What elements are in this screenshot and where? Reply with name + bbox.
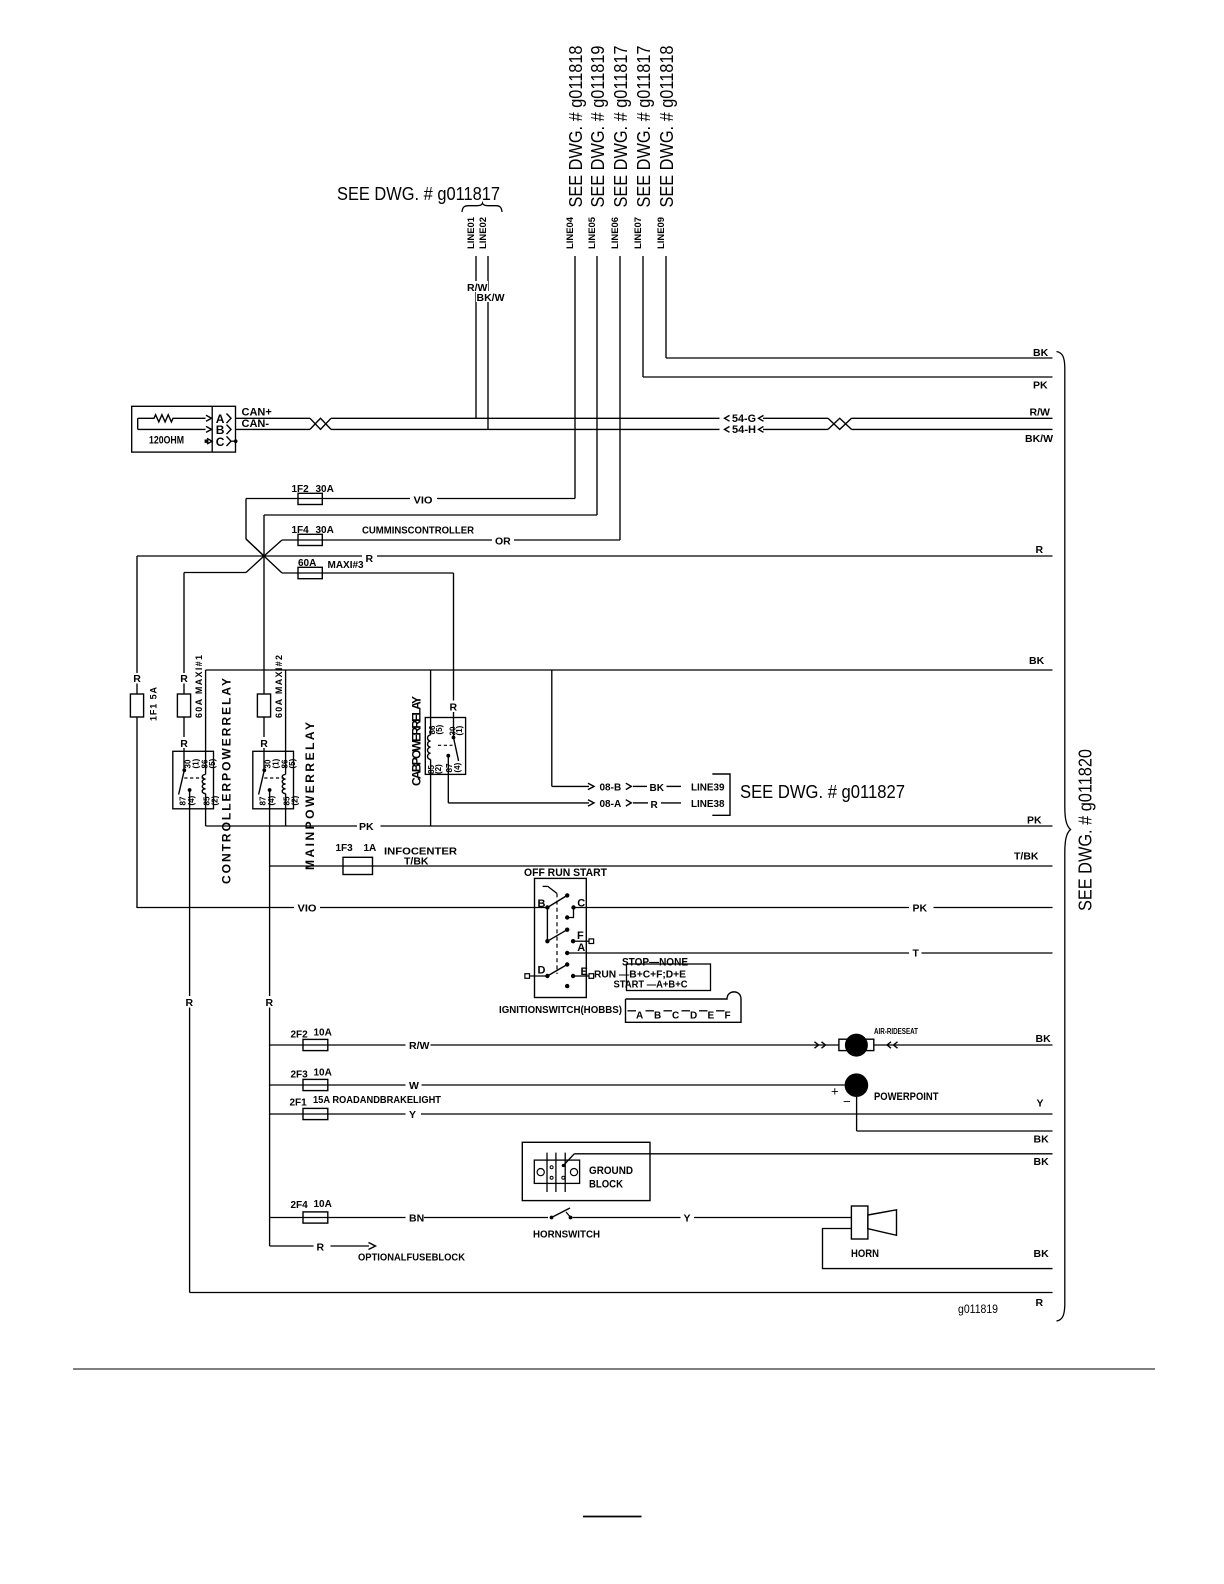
relay CABPOWERRELAY — [425, 718, 465, 775]
svg-text:(1): (1) — [455, 725, 464, 735]
svg-text:BK: BK — [1029, 655, 1045, 667]
resistor 120OHM terminator block — [132, 406, 236, 452]
svg-text:W: W — [409, 1080, 419, 1092]
bracket — [712, 774, 730, 815]
svg-text:R: R — [266, 997, 274, 1009]
svg-text:BK/W: BK/W — [1025, 433, 1053, 445]
svg-text:BLOCK: BLOCK — [589, 1179, 623, 1191]
svg-text:LINE01: LINE01 — [466, 217, 476, 249]
wire 08-A — [448, 802, 589, 804]
wire star vertical — [263, 515, 265, 694]
svg-text:(5): (5) — [288, 758, 297, 768]
footer center mark — [583, 1516, 642, 1518]
wire CAN+ — [236, 417, 311, 419]
pin B — [646, 1010, 655, 1012]
svg-text:Y: Y — [409, 1109, 416, 1121]
svg-text:LINE09: LINE09 — [656, 217, 666, 249]
svg-text:R/W: R/W — [1030, 407, 1051, 419]
terminal B — [206, 426, 212, 432]
svg-text:10A: 10A — [314, 1028, 332, 1039]
svg-text:GROUND: GROUND — [589, 1165, 633, 1177]
relay MAINPOWERRELAY — [253, 751, 294, 809]
wire powerpoint minus — [856, 1097, 858, 1131]
svg-text:BK: BK — [1034, 1134, 1050, 1146]
wire LINE06 drop — [619, 256, 621, 540]
svg-text:MAXI#3: MAXI#3 — [328, 560, 365, 571]
fuse 1F4 30A — [298, 534, 322, 545]
pin C — [664, 1010, 673, 1012]
wire to MAXI#1 column — [184, 572, 246, 574]
wire LINE04 drop — [574, 256, 576, 499]
fuse 60A MAXI#2 — [263, 717, 265, 737]
svg-text:B: B — [654, 1011, 661, 1022]
svg-text:SEE DWG. # g011819: SEE DWG. # g011819 — [588, 46, 608, 208]
svg-text:PK: PK — [359, 821, 374, 833]
svg-text:SEE DWG. # g011817: SEE DWG. # g011817 — [634, 46, 654, 208]
svg-text:CUMMINSCONTROLLER: CUMMINSCONTROLLER — [362, 525, 474, 537]
wire 1F1 column — [136, 556, 138, 673]
wire relay1 87 long drop — [189, 809, 191, 996]
svg-text:(4): (4) — [187, 795, 196, 805]
svg-text:LINE06: LINE06 — [610, 217, 620, 249]
svg-text:+: + — [831, 1084, 839, 1099]
twisted pair crossover 2 — [828, 418, 852, 429]
svg-text:F: F — [725, 1011, 731, 1022]
svg-text:R: R — [1036, 544, 1044, 556]
svg-text:PK: PK — [1033, 380, 1048, 392]
fuse 2F2 10A — [270, 1044, 406, 1046]
resistor element — [138, 415, 206, 422]
terminal B — [545, 905, 549, 909]
svg-text:−: − — [843, 1094, 851, 1109]
svg-text:C: C — [216, 435, 225, 449]
fuse 2F4 10A — [270, 1217, 406, 1219]
terminal D — [525, 974, 530, 979]
svg-text:OFF RUN START: OFF RUN START — [524, 867, 607, 879]
svg-text:R: R — [651, 800, 659, 811]
svg-text:LINE04: LINE04 — [565, 217, 575, 249]
brace over LINE01/LINE02 — [462, 203, 502, 212]
svg-text:(4): (4) — [267, 795, 276, 805]
svg-text:CAN-: CAN- — [242, 418, 270, 430]
svg-text:BK/W: BK/W — [477, 292, 505, 304]
svg-text:1A: 1A — [364, 843, 377, 854]
svg-text:LINE07: LINE07 — [633, 217, 643, 249]
wire VIO — [137, 907, 294, 909]
horn switch — [550, 1216, 554, 1220]
svg-text:2F1: 2F1 — [290, 1098, 308, 1109]
terminal C — [571, 905, 575, 909]
svg-text:SEE DWG. # g011827: SEE DWG. # g011827 — [740, 782, 905, 802]
blade3 — [547, 965, 567, 977]
svg-text:F: F — [577, 930, 584, 942]
svg-text:SEE DWG. # g011818: SEE DWG. # g011818 — [566, 46, 586, 208]
wire BK coil bus — [206, 669, 1053, 671]
svg-text:R: R — [133, 673, 141, 685]
wire T/BK — [270, 865, 1053, 867]
wire resistor loop to B — [137, 418, 139, 429]
svg-text:B: B — [538, 898, 546, 910]
wire LINE05 drop — [596, 256, 598, 515]
terminal F — [571, 939, 575, 943]
wire PK from C — [574, 907, 910, 909]
footer separator rule — [73, 1368, 1155, 1370]
svg-text:E: E — [581, 966, 588, 978]
svg-text:PK: PK — [1027, 815, 1042, 827]
svg-text:VIO: VIO — [414, 495, 433, 507]
svg-text:LINE05: LINE05 — [587, 217, 597, 249]
star junction diagonals — [246, 539, 264, 556]
wire cab 86 drop — [430, 670, 432, 735]
svg-text:(4): (4) — [453, 762, 462, 772]
fuse 1F1 5A — [130, 694, 143, 717]
pin E — [699, 1010, 708, 1012]
svg-text:2F3: 2F3 — [291, 1070, 309, 1081]
fuse 2F1 15A — [270, 1113, 406, 1115]
svg-text:10A: 10A — [314, 1199, 332, 1210]
wire LINE02 drop — [487, 256, 489, 429]
terminal E — [571, 974, 575, 978]
svg-text:SEE DWG. # g011818: SEE DWG. # g011818 — [657, 46, 677, 208]
svg-text:54-G: 54-G — [732, 413, 756, 425]
svg-text:R: R — [180, 673, 188, 685]
svg-text:HORN: HORN — [851, 1248, 879, 1260]
svg-text:(5): (5) — [208, 758, 217, 768]
fuse 60A MAXI#1 — [177, 694, 190, 717]
powerpoint — [845, 1073, 869, 1097]
terminal C — [205, 440, 209, 443]
ignition switch box — [535, 878, 587, 997]
svg-text:R: R — [366, 553, 374, 565]
svg-text:30A: 30A — [316, 484, 334, 495]
pin F — [716, 1010, 725, 1012]
svg-text:LINE02: LINE02 — [478, 217, 488, 249]
svg-text:PK: PK — [913, 903, 928, 915]
svg-text:LINE38: LINE38 — [691, 799, 725, 810]
svg-text:R: R — [317, 1242, 325, 1254]
svg-text:R: R — [186, 997, 194, 1009]
connector 54-G — [725, 415, 730, 421]
svg-text:BN: BN — [409, 1213, 424, 1225]
svg-text:BK: BK — [1033, 347, 1049, 359]
wire cab relay pin30 feed — [453, 573, 455, 701]
connector A-F box — [626, 992, 742, 1022]
svg-text:1F4: 1F4 — [292, 525, 310, 536]
air ride seat — [817, 1044, 839, 1046]
svg-text:C: C — [672, 1011, 679, 1022]
ground block — [522, 1142, 650, 1200]
svg-text:CAN+: CAN+ — [242, 407, 272, 419]
wire LINE09 drop — [665, 256, 667, 358]
connector 54-H — [725, 427, 730, 433]
fuse 2F3 10A — [270, 1084, 406, 1086]
label BK/W on LINE02 — [476, 291, 501, 302]
fuse 1F3 1A — [343, 857, 373, 874]
svg-text:SEE DWG. # g011817: SEE DWG. # g011817 — [611, 46, 631, 208]
svg-text:30A: 30A — [316, 525, 334, 536]
svg-text:OPTIONALFUSEBLOCK: OPTIONALFUSEBLOCK — [358, 1252, 465, 1264]
wire 08-B — [552, 785, 589, 787]
svg-text:1F3: 1F3 — [336, 843, 354, 854]
svg-text:08-B: 08-B — [600, 783, 622, 794]
svg-text:SEE DWG. # g011820: SEE DWG. # g011820 — [1076, 749, 1096, 911]
svg-text:R: R — [450, 702, 458, 714]
svg-text:(5): (5) — [435, 724, 444, 734]
svg-text:CABPOWERRELAY: CABPOWERRELAY — [410, 696, 424, 786]
svg-text:1F1 5A: 1F1 5A — [149, 687, 159, 722]
svg-text:BK: BK — [650, 783, 665, 794]
svg-text:Y: Y — [684, 1213, 691, 1225]
blade B-OFF — [547, 895, 567, 907]
wire relay2 87 long drop — [269, 809, 271, 996]
cab blade pin30 — [452, 736, 456, 740]
horn — [851, 1206, 868, 1239]
wire 1F2 branch — [245, 499, 247, 540]
svg-text:15A ROADANDBRAKELIGHT: 15A ROADANDBRAKELIGHT — [313, 1094, 442, 1106]
spare dot — [565, 984, 569, 988]
svg-text:D: D — [538, 965, 546, 977]
svg-text:10A: 10A — [314, 1068, 332, 1079]
wire PK relay85 bus — [206, 825, 357, 827]
pin A — [628, 1010, 637, 1012]
wire bottom R — [190, 1292, 1053, 1294]
svg-text:54-H: 54-H — [732, 424, 756, 436]
svg-text:T: T — [913, 948, 920, 960]
svg-text:R: R — [1036, 1297, 1044, 1309]
svg-text:g011819: g011819 — [958, 1302, 998, 1316]
svg-text:E: E — [708, 1011, 715, 1022]
svg-text:LINE39: LINE39 — [691, 782, 725, 793]
svg-text:OR: OR — [495, 536, 511, 548]
svg-text:Y: Y — [1037, 1098, 1044, 1110]
fuse 60A MAXI#3 — [298, 567, 322, 578]
svg-text:POWERPOINT: POWERPOINT — [874, 1091, 939, 1103]
svg-text:08-A: 08-A — [600, 799, 622, 810]
terminal A — [206, 415, 212, 421]
wire relay1 86 drop — [205, 670, 207, 774]
svg-text:1F2: 1F2 — [292, 484, 310, 495]
cab pin87 contact — [446, 754, 450, 758]
fuse 1F2 30A — [298, 493, 322, 504]
svg-text:SEE DWG. # g011817: SEE DWG. # g011817 — [337, 184, 500, 204]
wire LINE07 drop — [642, 256, 644, 377]
wire BK (from LINE09) — [666, 357, 1053, 359]
svg-text:(2): (2) — [434, 764, 443, 774]
dashed shaft — [556, 893, 558, 974]
svg-text:2F2: 2F2 — [291, 1030, 309, 1041]
B downlink + blade2 — [546, 908, 548, 942]
wire optional fuse block — [270, 1245, 314, 1247]
svg-text:120OHM: 120OHM — [149, 435, 184, 447]
svg-text:A: A — [577, 942, 585, 954]
pin D — [682, 1010, 691, 1012]
svg-text:R: R — [180, 738, 188, 750]
svg-text:(2): (2) — [291, 795, 300, 805]
OFF flag — [543, 885, 548, 887]
label R/W on LINE01 — [466, 281, 488, 292]
svg-text:R: R — [260, 738, 268, 750]
wire relay1 85 to PK — [205, 809, 207, 826]
svg-text:AIR-RIDESEAT: AIR-RIDESEAT — [874, 1027, 918, 1036]
wire ground block BK — [563, 1154, 574, 1166]
svg-text:BK: BK — [1036, 1033, 1052, 1045]
svg-text:BK: BK — [1034, 1248, 1050, 1260]
svg-text:START —A+B+C: START —A+B+C — [614, 979, 688, 991]
wire relay2 85 to PK — [285, 809, 287, 826]
svg-text:R/W: R/W — [409, 1040, 430, 1052]
svg-text:(1): (1) — [272, 758, 281, 768]
twisted pair crossover 1 — [310, 418, 331, 429]
svg-text:VIO: VIO — [298, 903, 317, 915]
wire relay2 86 drop — [285, 670, 287, 774]
svg-text:HORNSWITCH: HORNSWITCH — [533, 1229, 600, 1241]
wire LINE05 link — [264, 514, 597, 516]
svg-text:2F4: 2F4 — [291, 1200, 309, 1211]
wire MAXI#3 branch — [264, 556, 282, 573]
svg-text:STOP—NONE: STOP—NONE — [622, 957, 688, 969]
cab dashed link — [438, 744, 453, 746]
wire LINE01 drop — [475, 256, 477, 418]
brace SEE DWG. # g011820 — [1057, 352, 1071, 1322]
wire PK (from LINE07) — [643, 376, 1053, 378]
svg-text:T/BK: T/BK — [1014, 851, 1039, 863]
wire 08-B drop — [551, 670, 553, 786]
wire horn ground — [823, 1229, 1053, 1269]
svg-text:BK: BK — [1034, 1156, 1050, 1168]
wire 1F4 branch — [264, 540, 282, 556]
svg-text:D: D — [690, 1011, 697, 1022]
terminal A — [565, 951, 569, 955]
wire MAXI#1 column — [183, 573, 185, 674]
svg-text:A: A — [636, 1011, 643, 1022]
svg-text:(1): (1) — [192, 758, 201, 768]
wire CAN- — [236, 428, 311, 430]
wire R bus — [137, 555, 362, 557]
svg-text:IGNITIONSWITCH(HOBBS): IGNITIONSWITCH(HOBBS) — [499, 1004, 622, 1016]
svg-text:(2): (2) — [211, 795, 220, 805]
svg-text:T/BK: T/BK — [404, 856, 429, 868]
svg-text:60A: 60A — [298, 558, 316, 569]
relay CONTROLLERPOWERRELAY — [173, 751, 214, 809]
wire T from A — [567, 952, 909, 954]
